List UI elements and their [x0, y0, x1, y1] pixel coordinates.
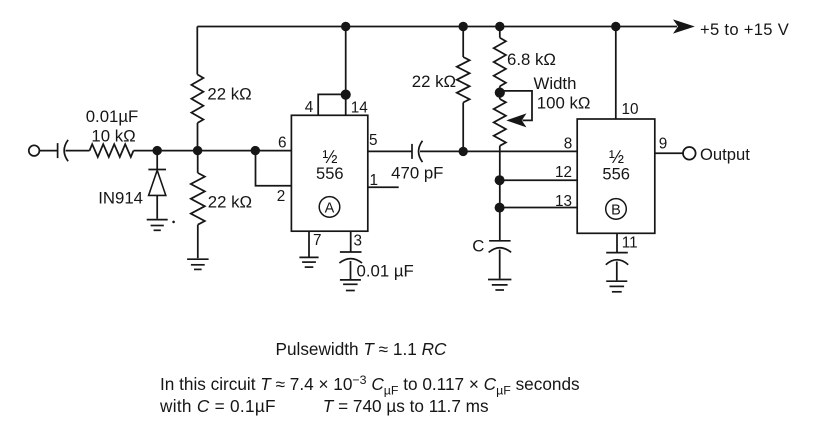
- svg-text:T = 740 µs to 11.7 ms: T = 740 µs to 11.7 ms: [323, 396, 489, 416]
- label pin 1: [369, 172, 378, 189]
- svg-text:10 kΩ: 10 kΩ: [91, 127, 135, 146]
- svg-text:14: 14: [351, 99, 369, 116]
- label Output: [700, 145, 750, 164]
- node junction rail-R3: [459, 22, 468, 31]
- potentiometer R6 100k: [494, 93, 506, 152]
- ground R2: [187, 259, 209, 269]
- wire pin 14 vertical: [345, 27, 347, 116]
- capacitor C5 bypass: [606, 253, 628, 265]
- svg-text:22 kΩ: 22 kΩ: [208, 192, 252, 211]
- svg-text:22 kΩ: 22 kΩ: [207, 84, 251, 103]
- label pin 3: [354, 233, 363, 250]
- svg-text:10: 10: [621, 101, 638, 118]
- label pin 8: [564, 135, 573, 152]
- svg-text:5: 5: [369, 132, 378, 149]
- node junction B: [193, 146, 202, 155]
- wire C5 to ground: [616, 262, 618, 281]
- label pin 2: [277, 188, 286, 205]
- svg-text:12: 12: [555, 164, 572, 181]
- svg-text:with C = 0.1µF: with C = 0.1µF: [159, 396, 276, 416]
- wire pot down: [499, 151, 501, 240]
- node junction D: [459, 147, 468, 156]
- op-amp U2 556 timer B: [577, 119, 655, 233]
- wire R4 to node E: [499, 86, 501, 92]
- label pin 10: [621, 101, 638, 118]
- capacitor C3 0.01uF: [339, 252, 362, 263]
- wire R2 to ground: [197, 225, 199, 259]
- wire pin 3 down: [350, 231, 352, 252]
- svg-text:556: 556: [602, 166, 630, 184]
- svg-text:8: 8: [564, 135, 573, 152]
- wire rail corner down: [196, 27, 198, 75]
- label Width: [534, 74, 577, 93]
- svg-text:2: 2: [277, 188, 286, 205]
- formula pulsewidth: [276, 339, 447, 359]
- label pin 13: [555, 193, 572, 210]
- wire C2 to node D: [420, 150, 463, 152]
- resistor R5 10k: [90, 144, 134, 157]
- label pin 11: [622, 234, 638, 251]
- svg-text:100 kΩ: 100 kΩ: [537, 94, 591, 113]
- wire pin 10 vertical: [615, 27, 617, 120]
- node junction rail-pin10: [611, 22, 620, 31]
- wire node A to node B: [157, 150, 197, 152]
- label pin 14: [351, 99, 369, 116]
- resistor R1 22k: [191, 75, 203, 124]
- wire node D to pin 8: [463, 150, 577, 152]
- svg-text:C: C: [472, 237, 484, 256]
- label +5 to +15 V: [700, 20, 789, 39]
- supply arrow: [673, 19, 695, 33]
- wire R3 to node D: [462, 103, 464, 152]
- label pin 6: [278, 134, 287, 151]
- label 470 pF: [391, 164, 443, 183]
- capacitor C1 0.01uF: [58, 140, 69, 161]
- diode D1 IN914: [148, 170, 166, 219]
- svg-text:+5 to +15 V: +5 to +15 V: [700, 20, 789, 39]
- svg-text:6.8 kΩ: 6.8 kΩ: [507, 50, 556, 69]
- wire pin 2 branch: [256, 151, 292, 186]
- wire R5 to node A: [134, 150, 158, 152]
- node junction diode: [153, 146, 162, 155]
- label C: [472, 237, 484, 256]
- label 0.01 uF: [357, 262, 414, 281]
- svg-text:½: ½: [609, 147, 624, 167]
- svg-text:Width: Width: [534, 74, 577, 93]
- label pin 9: [659, 136, 668, 153]
- svg-text:4: 4: [305, 99, 314, 116]
- wire C3 to ground: [350, 261, 352, 279]
- node junction rail-R4: [495, 22, 504, 31]
- svg-text:11: 11: [622, 234, 638, 251]
- svg-text:Pulsewidth T ≈ 1.1 RC: Pulsewidth T ≈ 1.1 RC: [276, 339, 447, 359]
- svg-text:556: 556: [316, 165, 344, 183]
- wire node C to pin 6: [255, 150, 291, 152]
- resistor R2 22k: [191, 173, 205, 225]
- wire pin 12: [500, 179, 577, 181]
- wiper arrow: [506, 113, 526, 127]
- wire pin 11 down: [616, 233, 618, 252]
- resistor R3 22k: [457, 57, 470, 103]
- label pin 12: [555, 164, 572, 181]
- wire node to D1: [156, 151, 158, 170]
- ground pin 7: [299, 257, 318, 267]
- wire input to C1: [39, 150, 57, 152]
- svg-text:A: A: [325, 200, 335, 216]
- wire C4 to ground: [499, 250, 501, 279]
- label 6.8 kOhm: [507, 50, 556, 69]
- capacitor C2 470pF: [412, 141, 423, 162]
- resistor R4 6.8k: [494, 38, 506, 86]
- label R3 22 kOhm: [412, 72, 456, 91]
- svg-text:Output: Output: [700, 145, 750, 164]
- wire node B to node C: [198, 150, 256, 152]
- label 10 kOhm: [91, 127, 135, 146]
- input terminal: [29, 145, 40, 156]
- wire rail to R3: [462, 27, 464, 58]
- node junction E: [495, 88, 505, 98]
- wire pin 1 stub: [368, 186, 399, 188]
- node junction pin4-14: [341, 90, 351, 100]
- svg-text:1: 1: [369, 172, 378, 189]
- wire rail to R4: [499, 27, 501, 38]
- label 0.01uF: [86, 107, 139, 126]
- label IN914: [98, 189, 143, 208]
- wire pin 4 bracket: [318, 94, 346, 115]
- ground C5: [606, 281, 627, 292]
- wire node B to R2: [197, 151, 199, 173]
- svg-text:In this circuit T ≈ 7.4 × 10−3: In this circuit T ≈ 7.4 × 10−3 CµF to 0.…: [160, 373, 580, 397]
- svg-text:7: 7: [313, 232, 322, 249]
- wire +V supply rail: [197, 26, 677, 28]
- svg-text:IN914: IN914: [98, 189, 143, 208]
- ground C3: [340, 280, 361, 291]
- formula range: [160, 373, 580, 397]
- wire pin 7 down: [308, 231, 310, 256]
- label R1 22 kOhm: [207, 84, 251, 103]
- wire pin 9 output: [655, 152, 683, 154]
- label pin 4: [305, 99, 314, 116]
- op-amp U1 556 timer A: [291, 115, 367, 231]
- svg-text:9: 9: [659, 136, 668, 153]
- ground diode: [147, 220, 168, 231]
- wire R1 to node B: [197, 123, 199, 151]
- svg-text:470 pF: 470 pF: [391, 164, 443, 183]
- label pin 5: [369, 132, 378, 149]
- svg-text:13: 13: [555, 193, 572, 210]
- wire C1 to R5: [66, 150, 90, 152]
- svg-text:3: 3: [354, 233, 363, 250]
- speck: [172, 221, 175, 224]
- node junction C: [251, 146, 260, 155]
- svg-text:6: 6: [278, 134, 287, 151]
- node junction pin12: [495, 175, 505, 185]
- label R2 22 kOhm: [208, 192, 252, 211]
- label pin 7: [313, 232, 322, 249]
- node junction pin13: [495, 203, 505, 213]
- output terminal: [683, 147, 696, 160]
- label 100 kOhm: [537, 94, 591, 113]
- capacitor C4 timing C: [489, 241, 512, 253]
- formula example: [159, 396, 489, 416]
- wire wiper: [500, 91, 532, 121]
- svg-text:0.01µF: 0.01µF: [86, 107, 139, 126]
- wire pin 5 to C2: [368, 150, 412, 152]
- svg-text:22 kΩ: 22 kΩ: [412, 72, 456, 91]
- wire pin 13: [500, 207, 577, 209]
- svg-text:B: B: [611, 202, 621, 218]
- svg-text:0.01 µF: 0.01 µF: [357, 262, 414, 281]
- node junction rail-pin14: [341, 22, 350, 31]
- ground C4: [488, 280, 511, 291]
